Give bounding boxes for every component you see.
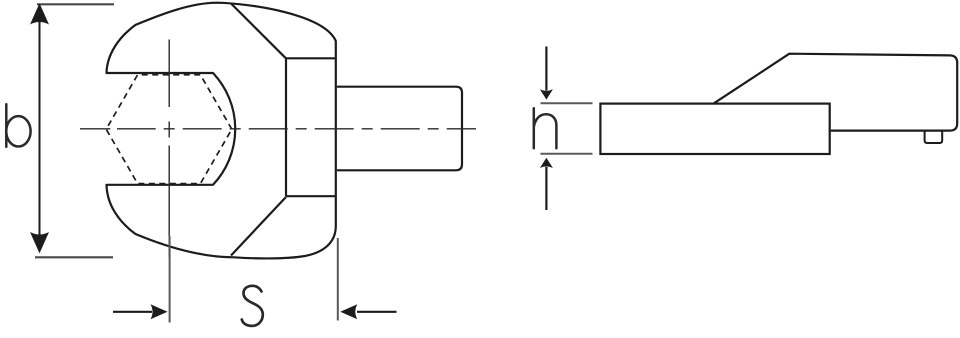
dimension h upper arrow line xyxy=(545,47,547,91)
dimension h top extension line xyxy=(541,102,593,104)
dimension S right arrow line xyxy=(357,311,397,313)
label S xyxy=(242,286,263,326)
horizontal centerline xyxy=(117,128,476,130)
torque wrench body (side view) xyxy=(714,54,958,131)
dimension S right extension line xyxy=(337,238,339,321)
dimension h bottom extension line xyxy=(541,153,593,155)
insert body rectangle (side view) xyxy=(600,104,829,154)
square drive boss bottom edge xyxy=(286,195,336,197)
dimension b top arrowhead xyxy=(30,3,49,24)
dimension h upper arrowhead xyxy=(540,89,553,99)
dimension b bottom arrowhead xyxy=(30,232,49,253)
vertical centerline lower segment xyxy=(168,146,170,258)
square drive boss bottom chamfer xyxy=(231,197,286,256)
dimension S left extension line xyxy=(169,236,171,323)
dimension h lower arrowhead xyxy=(540,158,553,168)
dimension S left arrow line xyxy=(113,311,152,313)
dimension b top extension line xyxy=(37,3,114,5)
dimension b line xyxy=(39,22,41,235)
dimension b bottom extension line xyxy=(35,256,113,258)
hexagon (hidden nut outline, dashed) xyxy=(106,75,232,184)
label b xyxy=(6,104,30,147)
release button tab (side view) xyxy=(925,131,943,143)
square drive boss left edge xyxy=(285,58,287,196)
dimension h lower arrow line xyxy=(545,167,547,210)
wrench head outline (front view) xyxy=(107,3,336,259)
vertical centerline center dash xyxy=(168,122,170,138)
square drive boss top chamfer xyxy=(231,4,286,58)
horizontal centerline first dash xyxy=(80,128,110,130)
shank (front view) xyxy=(337,87,462,171)
label h xyxy=(534,108,557,148)
square drive boss top edge xyxy=(286,57,336,59)
vertical centerline upper segment xyxy=(168,40,170,108)
dimension S right arrowhead xyxy=(340,304,357,319)
dimension S left arrowhead xyxy=(151,304,168,319)
